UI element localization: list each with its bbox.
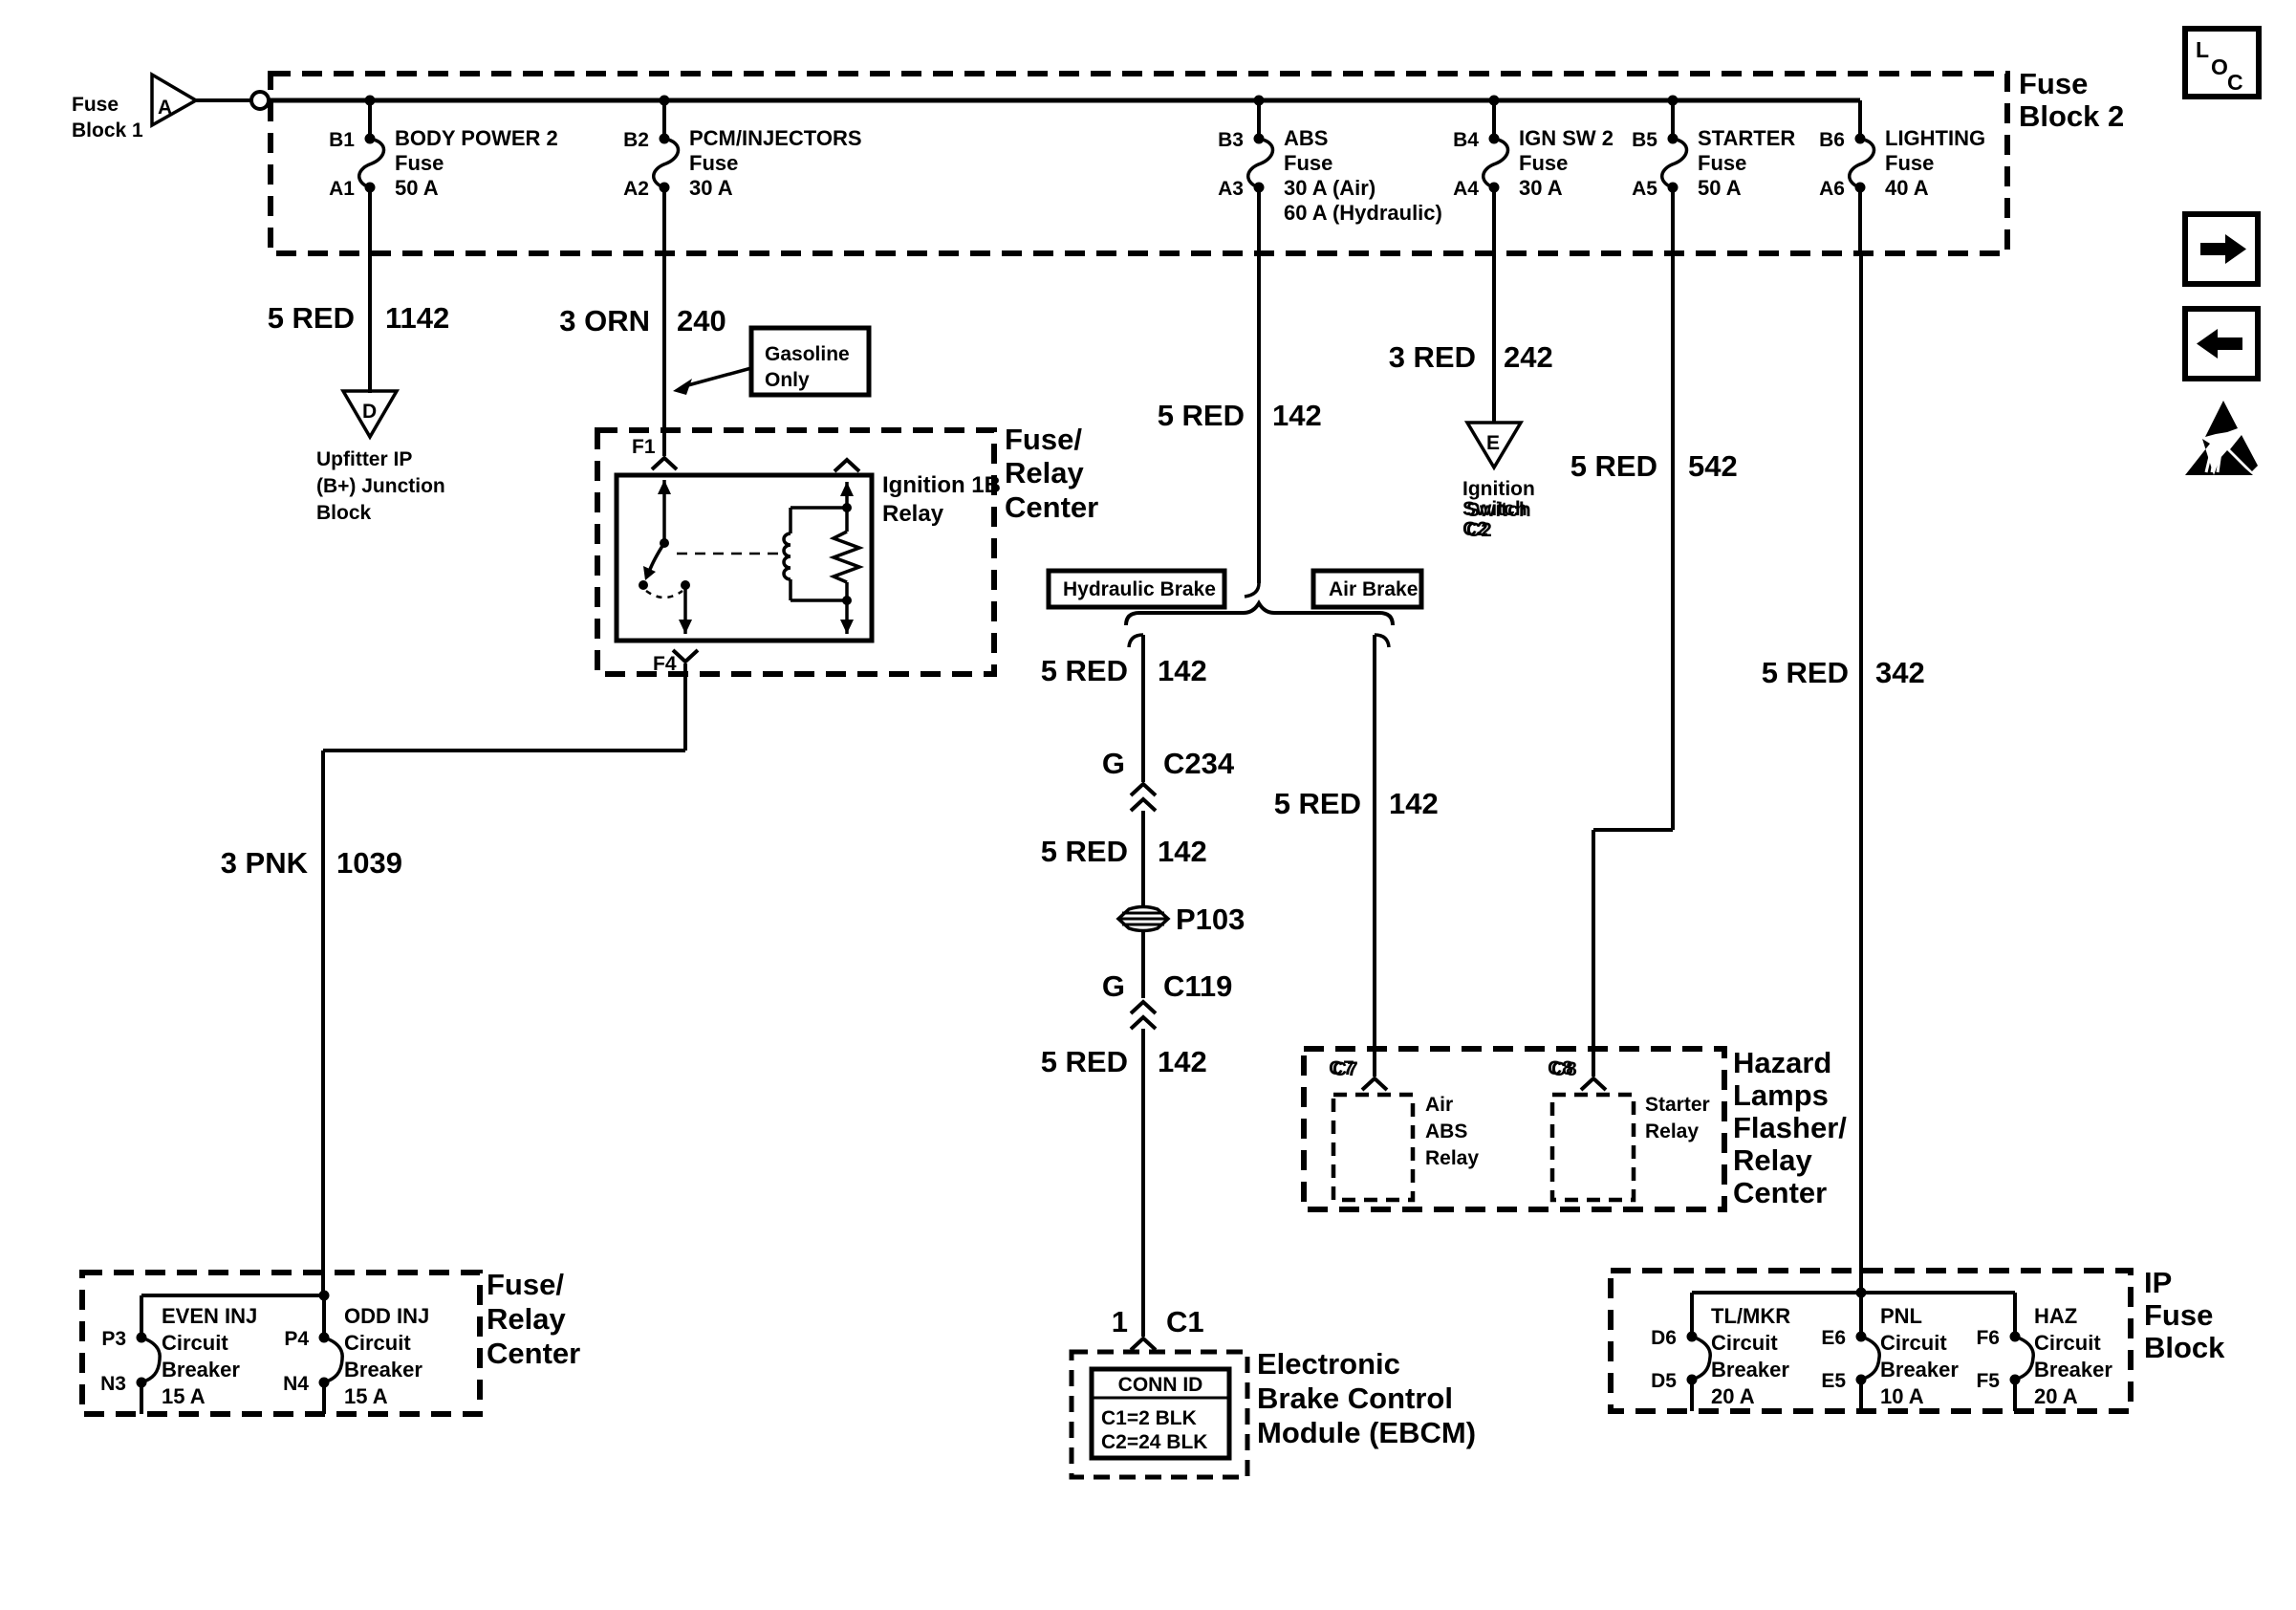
svg-text:Fuse: Fuse <box>1284 151 1332 175</box>
junction in fuse/relay center <box>319 1291 330 1301</box>
connector triangle D (to Upfitter IP junction block) <box>343 391 397 437</box>
svg-text:Block 1: Block 1 <box>72 120 143 141</box>
svg-text:Starter: Starter <box>1645 1094 1710 1116</box>
fuse STARTER (B5/A5) <box>1668 134 1679 144</box>
svg-text:Ignition: Ignition <box>1462 478 1535 500</box>
svg-text:Gasoline: Gasoline <box>765 343 850 365</box>
bus junction at B3 <box>1254 96 1265 106</box>
svg-text:LIGHTING: LIGHTING <box>1885 126 1985 150</box>
svg-text:Relay: Relay <box>1733 1143 1812 1177</box>
svg-text:30 A: 30 A <box>689 176 733 200</box>
boxed label Hydraulic Brake <box>1049 571 1224 607</box>
circuit breaker EVEN INJ (P3/N3) <box>137 1333 147 1343</box>
svg-text:B1: B1 <box>329 129 355 151</box>
bus junction at B1 <box>365 96 376 106</box>
coil top wire <box>791 506 847 510</box>
svg-text:1039: 1039 <box>336 846 402 880</box>
icon ESD warning symbol <box>2205 401 2238 437</box>
relay contact to F4 <box>681 580 690 590</box>
svg-text:PCM/INJECTORS: PCM/INJECTORS <box>689 126 862 150</box>
svg-text:Relay: Relay <box>487 1302 566 1336</box>
svg-text:F4: F4 <box>653 653 677 675</box>
svg-text:HAZ: HAZ <box>2034 1304 2077 1328</box>
svg-text:A3: A3 <box>1218 178 1244 200</box>
wire A2 down inside box <box>662 187 666 253</box>
svg-text:50 A: 50 A <box>395 176 439 200</box>
wire to P4 <box>322 1295 326 1338</box>
svg-text:CONN ID: CONN ID <box>1118 1374 1203 1396</box>
svg-text:E: E <box>1486 432 1500 454</box>
callout box Gasoline Only <box>751 328 869 395</box>
svg-text:Breaker: Breaker <box>2034 1358 2112 1382</box>
svg-text:A4: A4 <box>1453 178 1479 200</box>
svg-text:Breaker: Breaker <box>162 1358 240 1382</box>
svg-text:Air: Air <box>1425 1094 1453 1116</box>
circuit breaker HAZ (F6/F5) <box>2010 1332 2021 1342</box>
wire bus to B2 <box>662 100 666 139</box>
svg-text:Center: Center <box>1733 1176 1827 1209</box>
svg-text:A2: A2 <box>623 178 649 200</box>
svg-text:5 RED: 5 RED <box>268 301 355 335</box>
svg-text:Hydraulic Brake: Hydraulic Brake <box>1063 578 1216 600</box>
svg-text:40 A: 40 A <box>1885 176 1929 200</box>
svg-text:Fuse/: Fuse/ <box>1005 423 1082 456</box>
svg-text:Electronic: Electronic <box>1257 1347 1400 1381</box>
wire below E5 <box>1859 1380 1863 1411</box>
svg-text:5 RED: 5 RED <box>1158 399 1245 432</box>
svg-text:1: 1 <box>1112 1305 1128 1338</box>
svg-text:P3: P3 <box>101 1328 126 1350</box>
svg-text:5 RED: 5 RED <box>1041 654 1128 687</box>
svg-text:50 A: 50 A <box>1698 176 1742 200</box>
svg-text:5 RED: 5 RED <box>1762 656 1849 689</box>
svg-text:C2: C2 <box>1466 519 1492 541</box>
svg-text:Circuit: Circuit <box>1880 1331 1947 1355</box>
connector triangle A (from Fuse Block 1) <box>152 75 196 125</box>
svg-text:G: G <box>1102 747 1125 780</box>
svg-text:O: O <box>2211 54 2228 79</box>
relay switch blade arrow <box>649 543 664 572</box>
IP Fuse Block dashed outline <box>1611 1271 2131 1411</box>
svg-text:3 RED: 3 RED <box>1389 340 1476 374</box>
svg-text:Relay: Relay <box>1005 456 1084 490</box>
svg-text:30 A (Air): 30 A (Air) <box>1284 176 1375 200</box>
svg-text:142: 142 <box>1158 654 1207 687</box>
svg-text:(B+) Junction: (B+) Junction <box>316 475 445 497</box>
svg-text:240: 240 <box>677 304 726 337</box>
svg-text:C8: C8 <box>1551 1058 1577 1080</box>
svg-text:IGN SW 2: IGN SW 2 <box>1519 126 1614 150</box>
svg-text:D5: D5 <box>1651 1370 1677 1392</box>
wire circuit 1039 (F4 to Fuse/Relay Center breakers) <box>683 664 687 751</box>
relay node top <box>842 503 852 512</box>
relay output wire to F4 <box>683 585 687 634</box>
svg-text:15 A: 15 A <box>162 1384 206 1408</box>
wire below D5 <box>1690 1380 1694 1411</box>
relay switch common wire <box>662 480 666 543</box>
svg-text:F6: F6 <box>1976 1327 2000 1349</box>
callout arrow from Gasoline Only to wire 240 <box>684 368 751 386</box>
svg-text:E5: E5 <box>1821 1370 1846 1392</box>
svg-text:142: 142 <box>1272 399 1322 432</box>
wire bus to B5 <box>1671 100 1675 139</box>
fuse LIGHTING (B6/A6) <box>1855 134 1866 144</box>
svg-text:Fuse: Fuse <box>1519 151 1568 175</box>
Hazard Lamps Flasher/Relay Center dashed outline <box>1304 1049 1724 1209</box>
Fuse Block 2 dashed outline <box>271 74 2007 253</box>
connector chevron C1 at EBCM <box>1131 1338 1156 1350</box>
svg-text:C: C <box>2227 70 2243 95</box>
Starter Relay dashed outline <box>1552 1095 1634 1200</box>
svg-text:C2=24 BLK: C2=24 BLK <box>1101 1431 1207 1453</box>
svg-text:L: L <box>2196 37 2209 62</box>
svg-text:F5: F5 <box>1976 1370 2000 1392</box>
svg-text:542: 542 <box>1688 449 1738 483</box>
svg-text:5 RED: 5 RED <box>1274 787 1361 820</box>
svg-text:Circuit: Circuit <box>2034 1331 2101 1355</box>
bus junction at B2 <box>660 96 670 106</box>
svg-text:5 RED: 5 RED <box>1570 449 1657 483</box>
wire circuit 240 (A2 down to F1) <box>662 253 666 456</box>
svg-text:Center: Center <box>487 1337 580 1370</box>
bus junction at B5 <box>1668 96 1679 106</box>
svg-text:Fuse: Fuse <box>395 151 444 175</box>
wire circuit 342 (A6 down to IP fuse block) <box>1859 253 1863 1293</box>
boxed label Air Brake <box>1313 571 1421 607</box>
svg-text:5 RED: 5 RED <box>1041 1045 1128 1078</box>
svg-text:Brake Control: Brake Control <box>1257 1382 1453 1415</box>
svg-text:20 A: 20 A <box>2034 1384 2078 1408</box>
coil bottom wire <box>791 598 847 602</box>
svg-text:342: 342 <box>1875 656 1925 689</box>
svg-text:E6: E6 <box>1821 1327 1846 1349</box>
svg-text:ABS: ABS <box>1425 1120 1467 1142</box>
wire bus to B6 <box>1858 100 1862 139</box>
svg-text:Fuse: Fuse <box>1698 151 1746 175</box>
svg-text:Fuse: Fuse <box>72 94 119 116</box>
fuse BODY POWER 2 (B1/A1) <box>365 134 376 144</box>
svg-text:3 PNK: 3 PNK <box>221 846 309 880</box>
svg-text:5 RED: 5 RED <box>1041 835 1128 868</box>
svg-text:D6: D6 <box>1651 1327 1677 1349</box>
wire air brake 142 branch <box>1373 635 1376 1077</box>
svg-text:3 ORN: 3 ORN <box>559 304 650 337</box>
relay node bottom <box>842 596 852 605</box>
connector chevron F1 <box>652 458 677 469</box>
svg-text:Fuse: Fuse <box>689 151 738 175</box>
svg-text:BODY POWER 2: BODY POWER 2 <box>395 126 558 150</box>
wire circuit 142 (A3 down) <box>1257 253 1261 583</box>
Air ABS Relay dashed outline <box>1333 1095 1413 1200</box>
svg-text:C234: C234 <box>1163 747 1235 780</box>
splice ring <box>251 92 269 109</box>
fuse PCM/INJECTORS (B2/A2) <box>660 134 670 144</box>
svg-text:P103: P103 <box>1176 903 1245 936</box>
relay resistor <box>845 482 849 532</box>
svg-text:N4: N4 <box>283 1373 309 1395</box>
svg-text:A5: A5 <box>1632 178 1657 200</box>
wire circuit 542 (A5 to starter relay) <box>1671 253 1675 830</box>
svg-text:A: A <box>158 97 172 119</box>
wire to D6 <box>1690 1293 1694 1337</box>
svg-text:Fuse: Fuse <box>1885 151 1934 175</box>
relay switch pivot <box>660 538 669 548</box>
svg-text:20 A: 20 A <box>1711 1384 1755 1408</box>
svg-text:1142: 1142 <box>385 301 449 335</box>
relay coil control dashed line <box>677 553 782 555</box>
svg-text:Lamps: Lamps <box>1733 1078 1829 1112</box>
wire below F5 <box>2013 1380 2017 1411</box>
EBCM dashed outline <box>1072 1352 1247 1477</box>
svg-text:Flasher/: Flasher/ <box>1733 1111 1847 1144</box>
svg-text:B4: B4 <box>1453 129 1479 151</box>
svg-text:B6: B6 <box>1819 129 1845 151</box>
svg-text:Relay: Relay <box>1645 1120 1699 1142</box>
wire A6 down inside box <box>1858 187 1862 253</box>
wire circuit 1142 (A1 down) <box>368 253 372 393</box>
svg-text:Block: Block <box>316 502 372 524</box>
svg-text:Circuit: Circuit <box>162 1331 228 1355</box>
svg-text:G: G <box>1102 969 1125 1003</box>
svg-text:Relay: Relay <box>882 501 944 527</box>
connector chevron relay top-right <box>834 460 859 471</box>
svg-text:10 A: 10 A <box>1880 1384 1924 1408</box>
svg-text:ABS: ABS <box>1284 126 1328 150</box>
feed wire across breakers <box>141 1294 324 1297</box>
bus junction at B4 <box>1489 96 1500 106</box>
svg-text:C1: C1 <box>1166 1305 1204 1338</box>
feed wire across IP fuse block <box>1692 1291 2015 1295</box>
svg-text:Breaker: Breaker <box>344 1358 422 1382</box>
wire A5 down inside box <box>1671 187 1675 253</box>
svg-text:Fuse: Fuse <box>2144 1298 2213 1332</box>
svg-text:142: 142 <box>1158 1045 1207 1078</box>
svg-text:Fuse/: Fuse/ <box>487 1268 564 1301</box>
svg-text:Center: Center <box>1005 490 1098 524</box>
svg-text:TL/MKR: TL/MKR <box>1711 1304 1790 1328</box>
svg-text:D: D <box>362 401 377 423</box>
svg-text:Only: Only <box>765 369 810 391</box>
fuse IGN SW 2 (B4/A4) <box>1489 134 1500 144</box>
connector chevron C8 <box>1581 1078 1606 1090</box>
wire hydraulic 142 segment 4 to EBCM <box>1141 1029 1145 1337</box>
pass-through grommet P103 <box>1118 907 1168 931</box>
svg-text:142: 142 <box>1389 787 1439 820</box>
svg-text:Hazard: Hazard <box>1733 1046 1831 1079</box>
svg-text:F1: F1 <box>632 436 656 458</box>
svg-text:A6: A6 <box>1819 178 1845 200</box>
svg-text:STARTER: STARTER <box>1698 126 1795 150</box>
svg-text:Air Brake: Air Brake <box>1329 578 1418 600</box>
svg-text:Block 2: Block 2 <box>2019 99 2124 133</box>
svg-text:Breaker: Breaker <box>1711 1358 1789 1382</box>
circuit breaker TL/MKR (D6/D5) <box>1687 1332 1698 1342</box>
wire A3 down inside box <box>1257 187 1261 253</box>
wire A4 down inside box <box>1492 187 1496 253</box>
wire to F6 <box>2013 1293 2017 1337</box>
wire A1 down inside box <box>368 187 372 253</box>
wire to E6 <box>1859 1293 1863 1337</box>
Fuse/Relay Center (breakers) dashed outline <box>82 1273 480 1414</box>
Ignition 1B relay outline <box>617 475 872 641</box>
wire hydraulic 142 segment 1 <box>1141 635 1145 782</box>
relay switch travel dashed arc <box>646 591 682 598</box>
svg-text:C7: C7 <box>1332 1058 1358 1080</box>
svg-text:C119: C119 <box>1163 969 1232 1003</box>
wire below N3 <box>140 1382 143 1414</box>
svg-text:P4: P4 <box>284 1328 309 1350</box>
Fuse/Relay Center dashed outline <box>597 430 994 674</box>
hydraulic branch start curl <box>1129 635 1143 647</box>
icon arrow right box <box>2185 214 2258 284</box>
wire to P3 <box>140 1295 143 1338</box>
wire bus to B4 <box>1492 100 1496 139</box>
svg-text:Circuit: Circuit <box>344 1331 411 1355</box>
circuit breaker ODD INJ (P4/N4) <box>319 1333 330 1343</box>
svg-text:A1: A1 <box>329 178 355 200</box>
relay contact (NC side) <box>639 580 648 590</box>
svg-text:142: 142 <box>1158 835 1207 868</box>
svg-text:Breaker: Breaker <box>1880 1358 1959 1382</box>
svg-text:Circuit: Circuit <box>1711 1331 1778 1355</box>
svg-text:EVEN INJ: EVEN INJ <box>162 1304 257 1328</box>
connector chevron F4 <box>673 650 698 662</box>
svg-text:C1=2 BLK: C1=2 BLK <box>1101 1407 1197 1429</box>
wire from triangle A to splice <box>196 98 250 102</box>
svg-text:Upfitter IP: Upfitter IP <box>316 448 412 470</box>
wire hydraulic 142 segment 2 <box>1141 811 1145 906</box>
svg-text:IP: IP <box>2144 1266 2172 1299</box>
circuit breaker PNL (E6/E5) <box>1856 1332 1867 1342</box>
CONN ID table <box>1092 1369 1229 1458</box>
svg-text:Ignition 1B: Ignition 1B <box>882 472 1001 498</box>
connector triangle E (to ignition switch) <box>1467 423 1521 468</box>
wire circuit 242 (A4 down) <box>1492 253 1496 423</box>
wire bus to B1 <box>368 100 372 139</box>
main bus wire across Fuse Block 2 <box>269 98 1860 103</box>
icon arrow left box <box>2185 309 2258 379</box>
wire hydraulic 142 segment 3 <box>1141 931 1145 998</box>
svg-text:Module (EBCM): Module (EBCM) <box>1257 1416 1476 1449</box>
svg-text:242: 242 <box>1504 340 1553 374</box>
icon LOC box <box>2185 29 2259 97</box>
svg-text:60 A (Hydraulic): 60 A (Hydraulic) <box>1284 201 1442 225</box>
svg-text:B2: B2 <box>623 129 649 151</box>
svg-text:B5: B5 <box>1632 129 1657 151</box>
junction in IP fuse block <box>1856 1288 1867 1298</box>
svg-text:N3: N3 <box>100 1373 126 1395</box>
svg-text:30 A: 30 A <box>1519 176 1563 200</box>
brake split brace <box>1126 603 1393 625</box>
svg-text:Fuse: Fuse <box>2019 67 2088 100</box>
svg-text:ODD INJ: ODD INJ <box>344 1304 429 1328</box>
svg-text:PNL: PNL <box>1880 1304 1922 1328</box>
wire bus to B3 <box>1257 100 1261 139</box>
svg-text:Relay: Relay <box>1425 1147 1479 1169</box>
fuse ABS (B3/A3) <box>1254 134 1265 144</box>
svg-text:15 A: 15 A <box>344 1384 388 1408</box>
wire below N4 <box>322 1382 326 1414</box>
relay coil <box>789 508 792 533</box>
air branch start curl <box>1375 635 1389 647</box>
wire end curl above brake split <box>1245 583 1259 597</box>
svg-text:B3: B3 <box>1218 129 1244 151</box>
svg-text:Block: Block <box>2144 1331 2225 1364</box>
connector chevron C7 <box>1362 1078 1387 1090</box>
